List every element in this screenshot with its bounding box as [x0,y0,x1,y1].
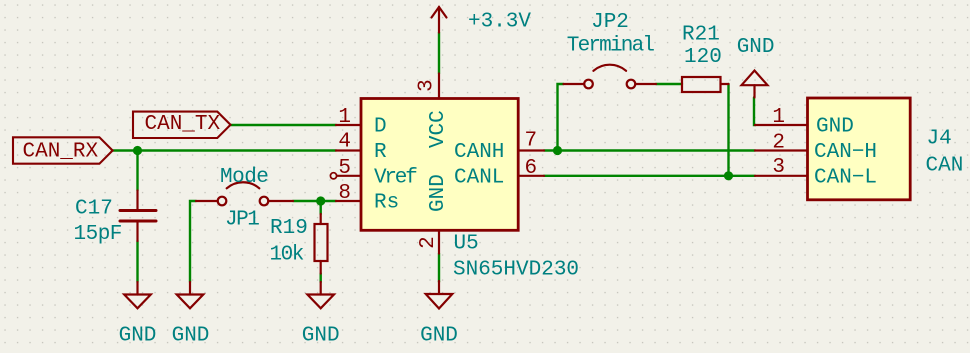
svg-text:CANL: CANL [454,166,504,189]
svg-text:C17: C17 [75,198,113,221]
svg-text:GND: GND [420,325,458,348]
svg-text:Rs: Rs [374,192,399,215]
svg-text:6: 6 [525,157,538,180]
svg-text:4: 4 [338,131,351,154]
svg-text:CAN: CAN [926,155,964,178]
svg-text:VCC: VCC [427,110,450,148]
svg-text:10k: 10k [270,244,304,267]
svg-text:R: R [374,141,387,164]
svg-text:Vref: Vref [374,166,417,189]
svg-text:CAN_RX: CAN_RX [23,141,99,164]
svg-text:Mode: Mode [220,166,268,189]
svg-text:2: 2 [772,132,785,155]
svg-text:GND: GND [302,325,340,348]
svg-text:GND: GND [172,325,210,348]
svg-text:3: 3 [416,79,439,92]
svg-text:JP2: JP2 [591,11,629,34]
svg-text:SN65HVD230: SN65HVD230 [453,259,579,282]
svg-text:GND: GND [816,116,854,139]
svg-text:7: 7 [525,130,538,153]
svg-text:1: 1 [338,106,351,129]
svg-text:2: 2 [417,236,440,249]
svg-text:CAN−H: CAN−H [814,141,877,164]
svg-text:CAN−L: CAN−L [814,166,877,189]
svg-text:CANH: CANH [454,141,504,164]
svg-text:D: D [374,116,387,139]
svg-text:U5: U5 [454,233,479,256]
svg-text:GND: GND [119,325,157,348]
svg-text:5: 5 [338,157,351,180]
svg-text:120: 120 [684,46,722,69]
svg-text:15pF: 15pF [74,223,122,246]
svg-text:3: 3 [772,156,785,179]
svg-text:8: 8 [338,182,351,205]
svg-text:+3.3V: +3.3V [468,11,531,34]
svg-text:JP1: JP1 [225,209,259,232]
svg-text:J4: J4 [927,128,952,151]
svg-text:R21: R21 [682,24,720,47]
svg-text:CAN_TX: CAN_TX [145,113,221,136]
svg-text:Terminal: Terminal [567,35,655,58]
svg-text:R19: R19 [270,217,308,240]
svg-text:GND: GND [737,36,775,59]
svg-text:1: 1 [772,106,785,129]
svg-text:GND: GND [427,174,450,212]
